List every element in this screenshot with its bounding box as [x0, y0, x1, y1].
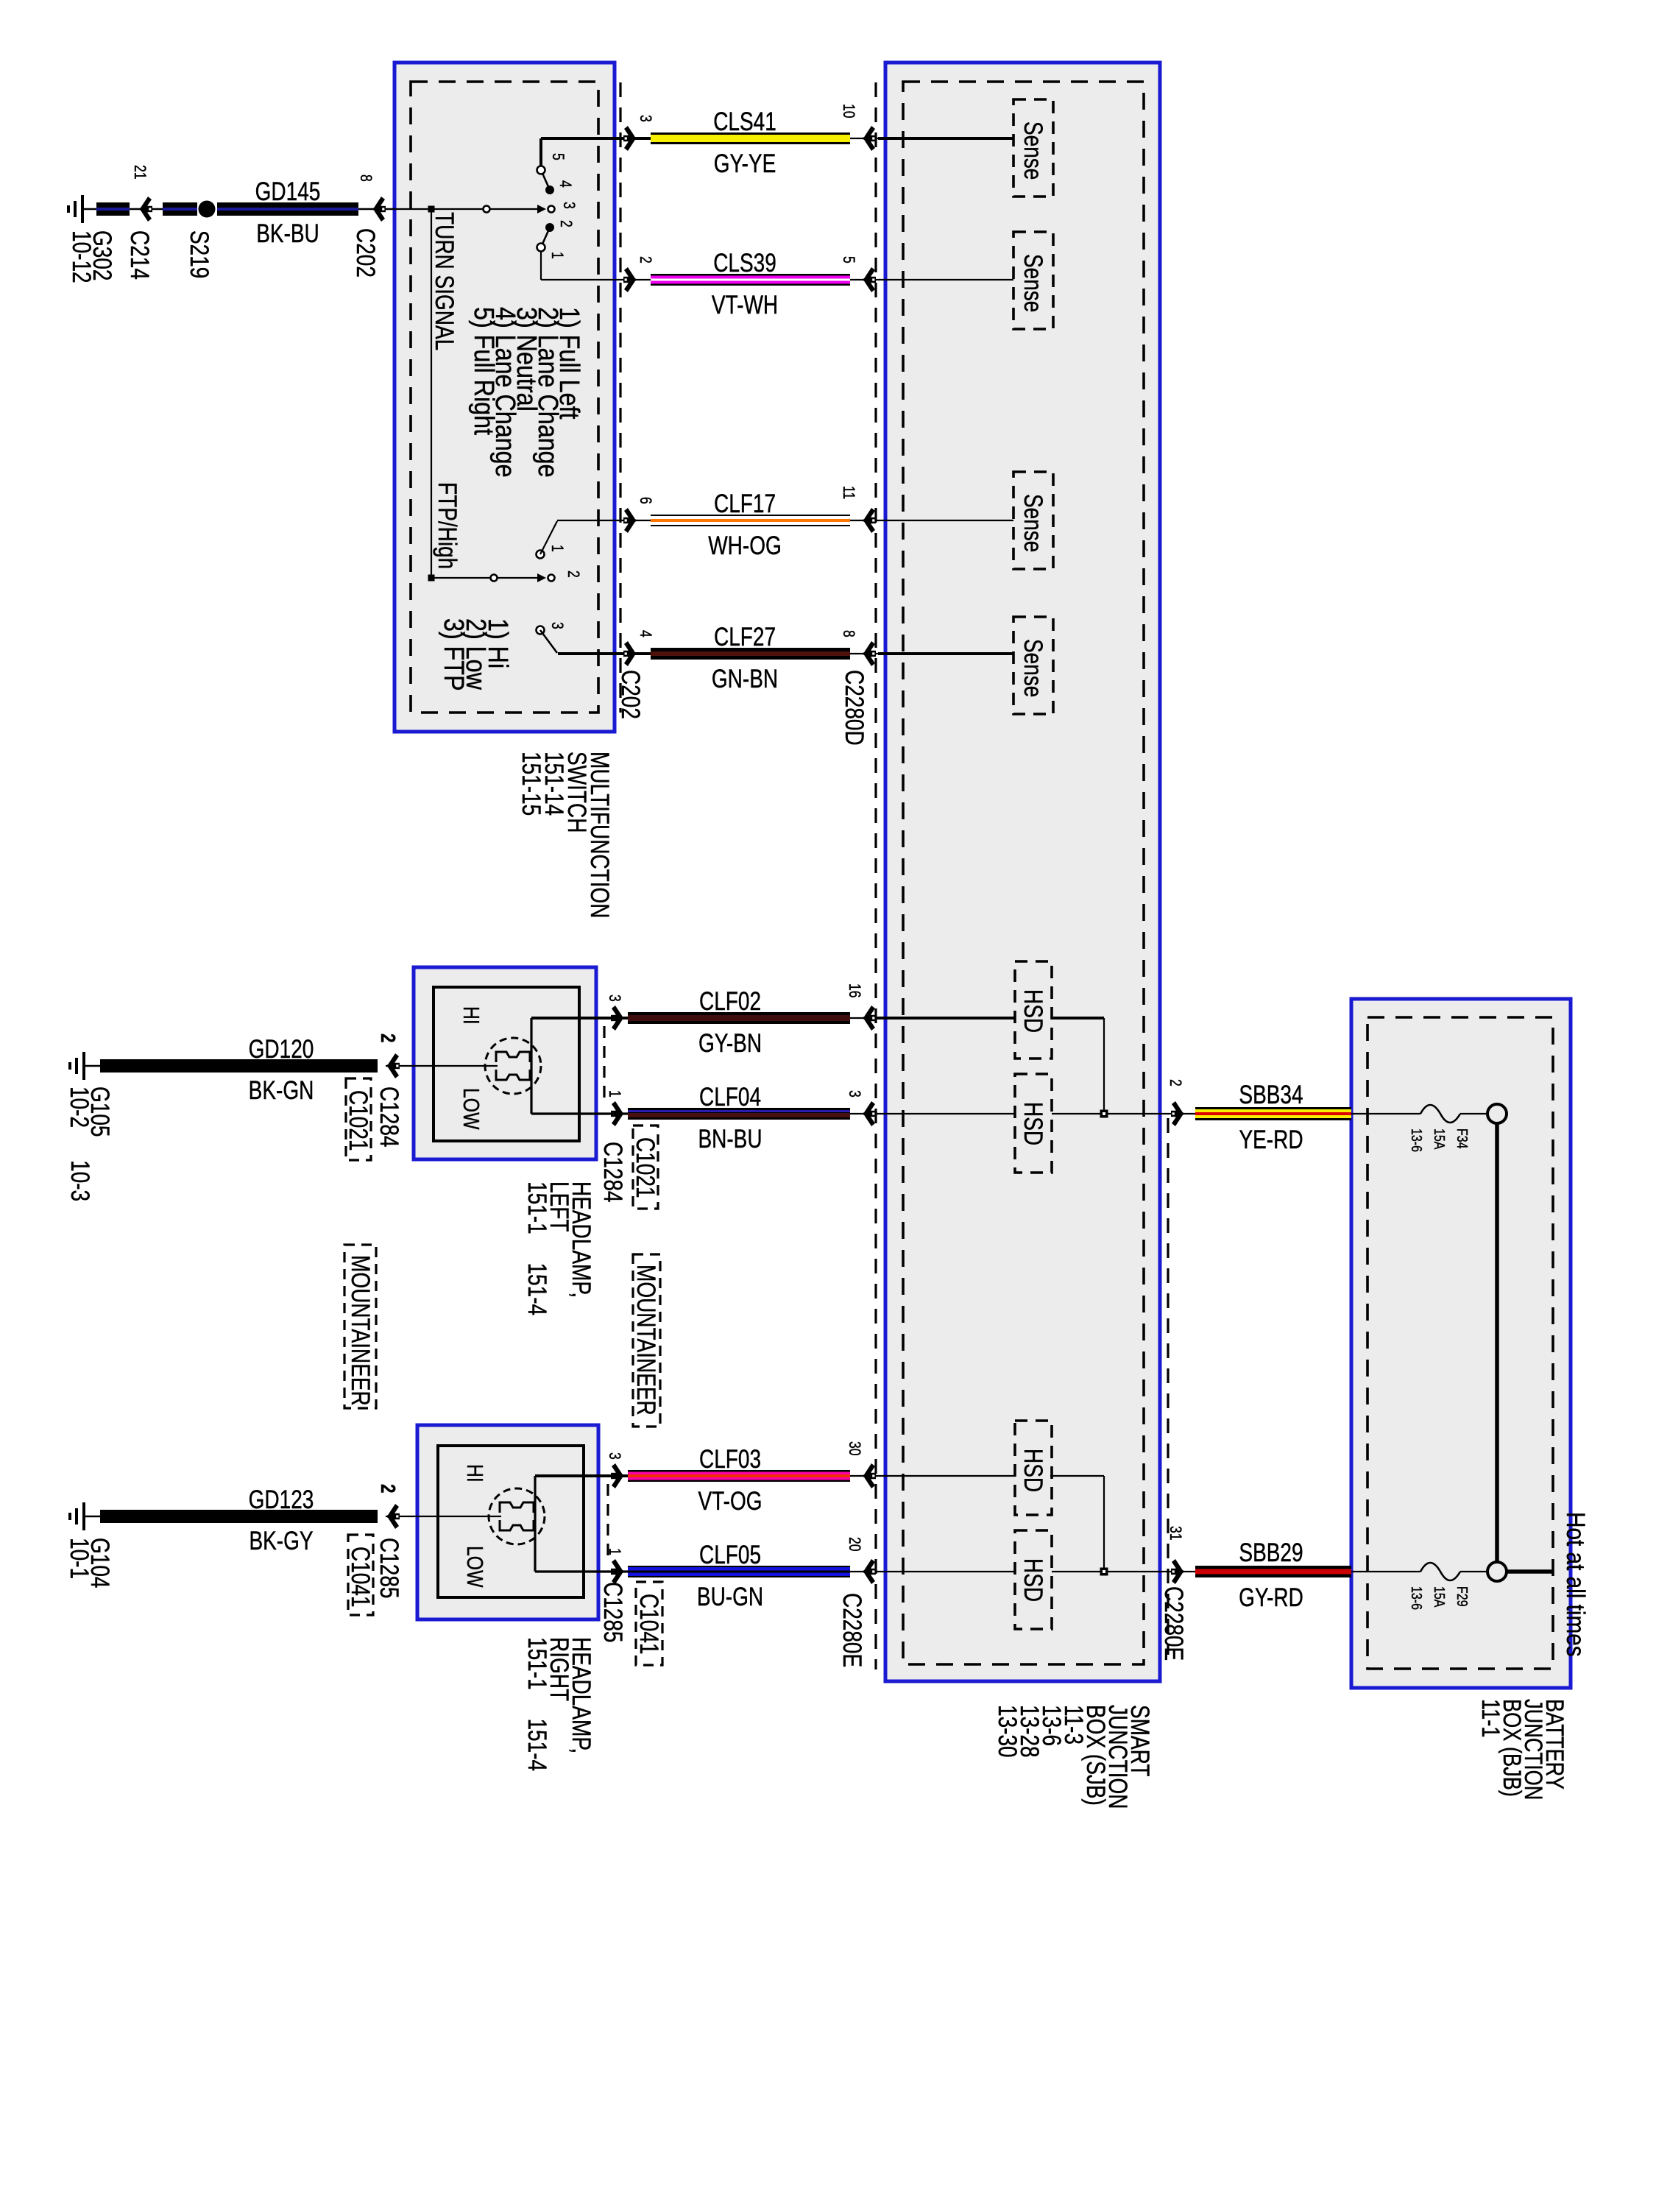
svg-text:HSD: HSD [1019, 989, 1048, 1033]
svg-text:VT-OG: VT-OG [698, 1486, 762, 1516]
svg-text:CLF04: CLF04 [699, 1082, 761, 1112]
svg-text:GY-YE: GY-YE [714, 149, 776, 178]
svg-text:YE-RD: YE-RD [1239, 1125, 1303, 1154]
svg-text:GY-BN: GY-BN [698, 1028, 762, 1058]
svg-text:F2915A13-6: F2915A13-6 [1409, 1586, 1471, 1610]
svg-text:C1284: C1284 [598, 1142, 628, 1203]
svg-text:C214: C214 [125, 230, 155, 280]
svg-text:C1284: C1284 [375, 1086, 404, 1148]
svg-text:VT-WH: VT-WH [712, 290, 778, 319]
svg-text:MOUNTAINEER: MOUNTAINEER [631, 1265, 661, 1416]
svg-text:3: 3 [548, 622, 565, 629]
svg-text:Sense: Sense [1019, 494, 1048, 552]
svg-text:Sense: Sense [1019, 121, 1048, 180]
svg-text:CLF17: CLF17 [714, 489, 776, 518]
svg-text:SBB34: SBB34 [1239, 1080, 1303, 1109]
svg-text:CLS39: CLS39 [713, 248, 776, 278]
svg-text:4: 4 [556, 180, 573, 188]
svg-text:CLF27: CLF27 [714, 622, 776, 651]
svg-text:C1285: C1285 [375, 1538, 404, 1599]
svg-text:6: 6 [636, 497, 654, 504]
svg-text:SBB29: SBB29 [1239, 1538, 1303, 1567]
svg-text:BK-GY: BK-GY [249, 1526, 313, 1555]
svg-text:2: 2 [1166, 1079, 1183, 1086]
svg-text:5: 5 [839, 256, 857, 264]
svg-text:MOUNTAINEER: MOUNTAINEER [346, 1255, 375, 1406]
svg-text:GY-RD: GY-RD [1239, 1583, 1303, 1612]
svg-text:2: 2 [376, 1033, 399, 1042]
svg-text:C1021: C1021 [344, 1090, 373, 1151]
svg-text:GD120: GD120 [249, 1034, 314, 1064]
svg-text:3: 3 [605, 1452, 623, 1460]
svg-text:C2280E: C2280E [1159, 1586, 1189, 1661]
svg-text:8: 8 [356, 174, 374, 182]
svg-text:CLF03: CLF03 [699, 1444, 761, 1474]
svg-text:10-3: 10-3 [66, 1160, 95, 1201]
svg-text:Sense: Sense [1019, 639, 1048, 697]
svg-text:Hot at all times: Hot at all times [1561, 1512, 1590, 1657]
svg-text:BK-GN: BK-GN [249, 1075, 314, 1105]
svg-text:1: 1 [548, 252, 565, 259]
svg-text:3: 3 [605, 994, 623, 1002]
svg-text:3: 3 [636, 115, 654, 122]
svg-text:G30210-12: G30210-12 [67, 230, 117, 283]
svg-text:1: 1 [605, 1548, 623, 1555]
svg-text:CLF05: CLF05 [699, 1540, 761, 1569]
svg-text:31: 31 [1166, 1526, 1183, 1541]
svg-text:HSD: HSD [1019, 1558, 1048, 1602]
svg-text:C1021: C1021 [631, 1137, 660, 1198]
svg-text:11: 11 [839, 486, 857, 499]
svg-text:30: 30 [845, 1441, 863, 1456]
svg-text:CLF02: CLF02 [699, 986, 761, 1016]
svg-text:S219: S219 [185, 230, 214, 278]
svg-text:C1285: C1285 [598, 1582, 628, 1643]
svg-text:HSD: HSD [1019, 1102, 1048, 1145]
svg-text:BK-BU: BK-BU [256, 219, 319, 248]
svg-text:HSD: HSD [1019, 1449, 1048, 1492]
svg-text:C2280D: C2280D [840, 670, 869, 746]
svg-text:3: 3 [559, 202, 577, 209]
svg-text:GD145: GD145 [255, 177, 321, 206]
svg-text:C1041: C1041 [346, 1547, 375, 1608]
svg-text:16: 16 [845, 983, 863, 998]
svg-text:4: 4 [636, 630, 654, 637]
svg-text:1: 1 [605, 1090, 623, 1098]
svg-text:2: 2 [564, 570, 581, 578]
svg-text:LOW: LOW [459, 1088, 484, 1130]
svg-text:2: 2 [376, 1484, 399, 1493]
svg-text:HI: HI [462, 1464, 487, 1483]
svg-text:10: 10 [839, 104, 857, 119]
svg-text:GN-BN: GN-BN [712, 664, 778, 693]
svg-text:F3415A13-6: F3415A13-6 [1409, 1128, 1471, 1152]
svg-text:WH-OG: WH-OG [708, 531, 782, 560]
svg-text:C202: C202 [616, 670, 645, 719]
svg-text:GD123: GD123 [249, 1485, 314, 1514]
svg-text:2: 2 [556, 220, 574, 227]
svg-text:FTP/High: FTP/High [433, 482, 462, 569]
svg-text:1: 1 [548, 545, 565, 552]
svg-text:HI: HI [459, 1006, 484, 1025]
svg-text:C1041: C1041 [634, 1594, 664, 1655]
svg-text:CLS41: CLS41 [713, 107, 776, 136]
svg-text:21: 21 [130, 165, 148, 180]
svg-text:TURN SIGNAL: TURN SIGNAL [430, 212, 459, 350]
svg-text:BN-BU: BN-BU [698, 1124, 762, 1153]
svg-text:8: 8 [839, 630, 857, 637]
svg-text:BU-GN: BU-GN [697, 1582, 763, 1611]
svg-text:LOW: LOW [462, 1546, 487, 1588]
svg-text:2: 2 [636, 256, 654, 264]
svg-text:5: 5 [548, 153, 566, 160]
svg-text:Sense: Sense [1019, 254, 1048, 312]
svg-text:20: 20 [845, 1537, 863, 1552]
svg-text:3: 3 [845, 1090, 863, 1098]
svg-text:C2280E: C2280E [838, 1593, 867, 1667]
svg-text:C202: C202 [351, 228, 381, 278]
